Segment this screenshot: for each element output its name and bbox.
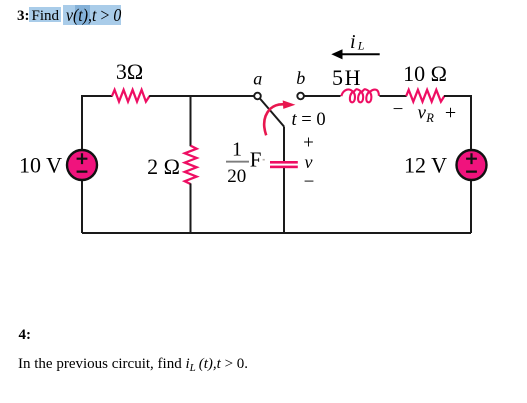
- problem 4 heading: [19, 328, 32, 343]
- wire: capacitor branch upper: [283, 127, 285, 162]
- wire: inductor to 10-ohm resistor: [380, 95, 407, 97]
- svg-text:−: −: [304, 172, 315, 193]
- inductor L 5H coil: [341, 89, 379, 102]
- node a terminal circle: [254, 93, 261, 100]
- svg-text:1: 1: [232, 139, 242, 161]
- wire: capacitor branch lower: [283, 168, 285, 233]
- svg-text:b: b: [296, 68, 305, 88]
- switch lever from a down to capacitor branch: [260, 99, 284, 127]
- svg-text:i: i: [350, 31, 356, 53]
- problem 3 heading text: [17, 9, 30, 24]
- wire: b to inductor: [304, 95, 341, 97]
- svg-text:v: v: [418, 103, 427, 124]
- wire: 10-ohm to top-right corner and down right side: [444, 96, 471, 150]
- resistor R 10ohm: [406, 90, 444, 102]
- svg-text:5H: 5H: [332, 65, 362, 90]
- voltage source V2 12V: [457, 150, 487, 180]
- resistor R 3ohm: [112, 90, 150, 102]
- wire: bottom rail: [82, 232, 471, 234]
- svg-text:F: F: [250, 148, 262, 172]
- svg-text:R: R: [425, 111, 434, 125]
- wire top-left: left corner to 3-ohm resistor: [82, 96, 113, 233]
- svg-text:2 Ω: 2 Ω: [147, 154, 180, 179]
- svg-text:a: a: [253, 69, 262, 89]
- switch arc arrow (a to b): [264, 100, 295, 135]
- svg-text:+: +: [445, 102, 456, 124]
- capacitor C 1/20F plates: [270, 161, 298, 168]
- svg-text:v: v: [305, 152, 313, 172]
- svg-text:20: 20: [227, 166, 246, 187]
- node b terminal circle: [297, 93, 304, 100]
- voltage source V1 10V: [67, 150, 97, 180]
- svg-text:+: +: [303, 133, 314, 154]
- svg-text:3Ω: 3Ω: [116, 59, 143, 84]
- problem 4 text: [18, 357, 248, 374]
- wire: right side below 12V source to bottom: [470, 181, 472, 234]
- resistor R 2ohm vertical: [185, 146, 197, 184]
- svg-text:t = 0: t = 0: [292, 110, 326, 130]
- problem 3 heading highlight boxes: [29, 7, 61, 22]
- svg-text:12 V: 12 V: [404, 153, 447, 178]
- svg-text:L: L: [357, 39, 365, 53]
- svg-text:10 Ω: 10 Ω: [403, 61, 447, 86]
- wire: 2-ohm branch lower: [190, 183, 192, 233]
- svg-text:10 V: 10 V: [19, 153, 62, 178]
- wire: 3-ohm to switch terminal a: [149, 95, 254, 97]
- svg-text:−: −: [393, 99, 404, 120]
- inductor current iL arrow: [331, 49, 379, 59]
- wire: 2-ohm branch upper: [190, 96, 192, 146]
